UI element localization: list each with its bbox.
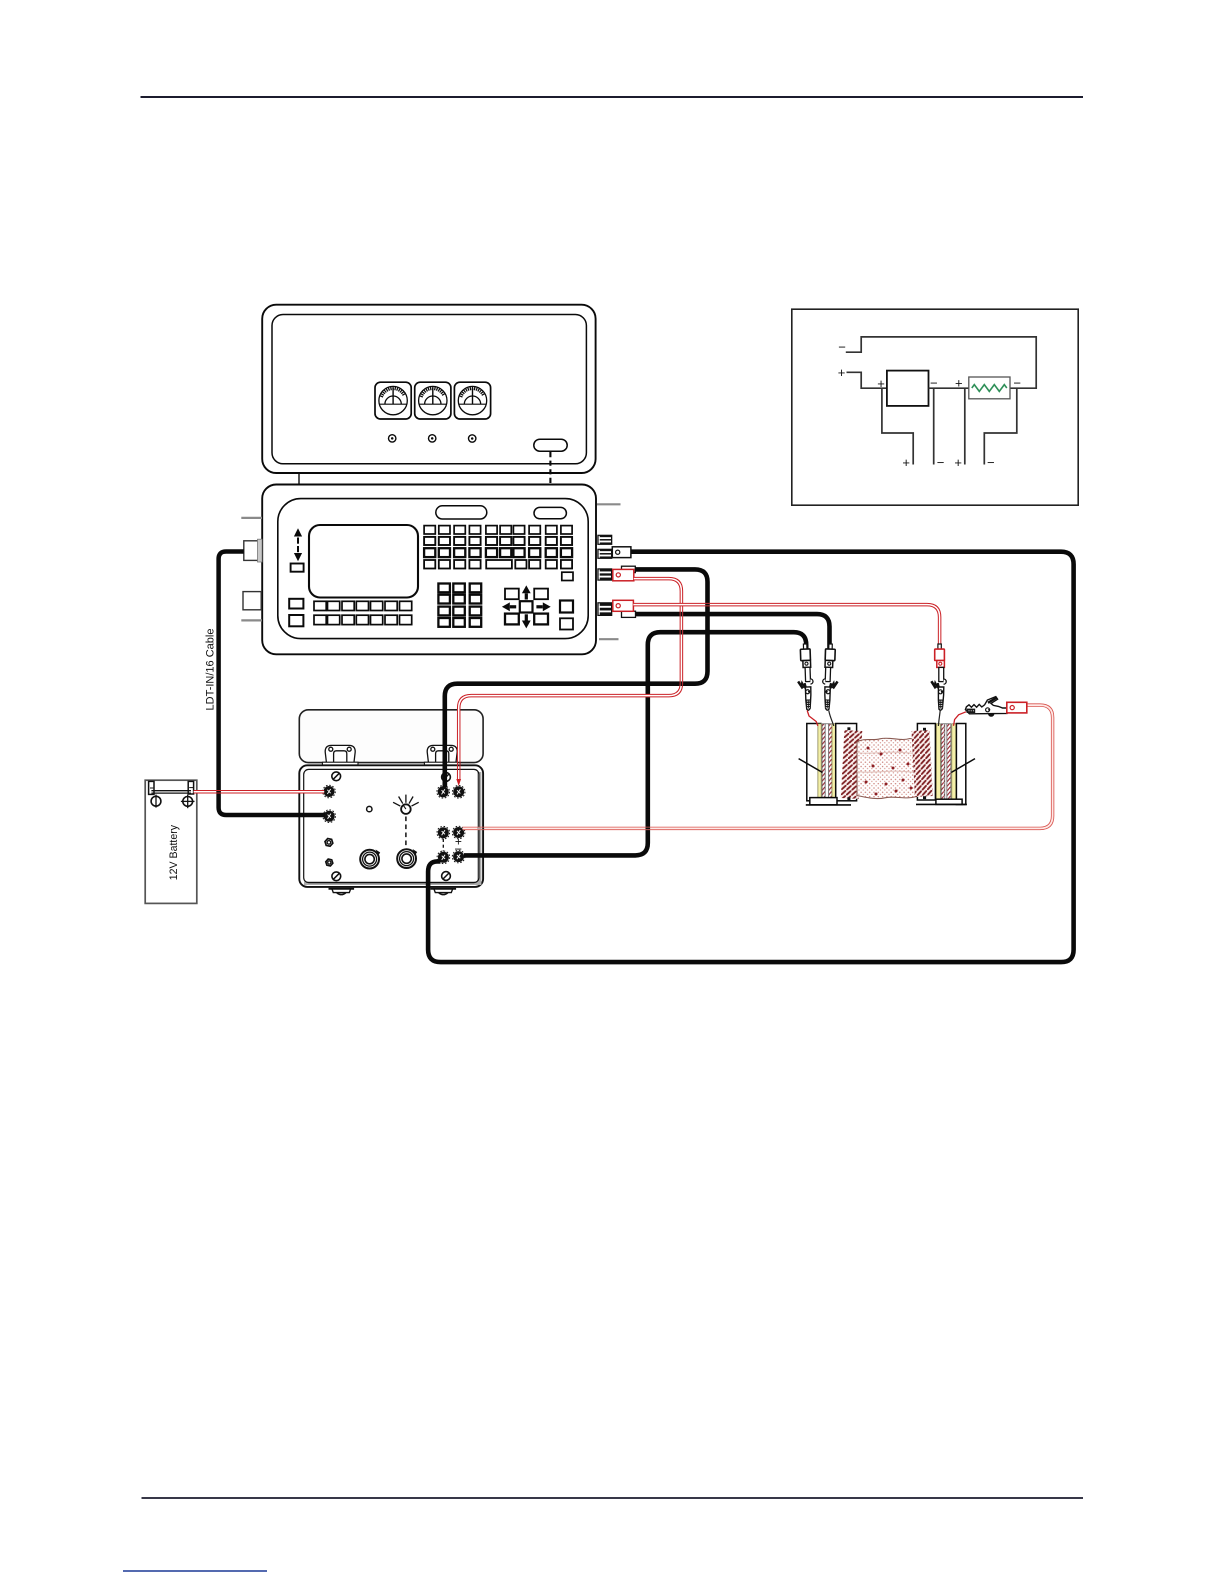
- wire crossing patches (black shows through red wire cores): [216, 604, 710, 830]
- output socket CH3: [597, 568, 612, 580]
- second left socket: [243, 592, 261, 610]
- meter instrument M1 outer case: [262, 305, 595, 473]
- wire: CH3 black to box V+ terminal: [445, 569, 708, 787]
- wire: box plus terminal to test clip 4: [463, 705, 1053, 828]
- svg-text:+: +: [902, 455, 910, 470]
- knob R2: [397, 849, 417, 868]
- test clip 2 (black): [822, 644, 839, 711]
- left backing plate: [836, 724, 857, 801]
- wire: CH3 red sense to box V+ right terminal: [459, 579, 682, 780]
- footer link underline: [123, 1570, 267, 1572]
- svg-text:−: −: [838, 340, 846, 355]
- clip 1 lead into left electrode: [807, 711, 818, 726]
- right electrode 2 (yellow): [952, 724, 956, 800]
- wire: CH2 black loop around to box GND terminal: [428, 552, 1074, 962]
- right leader line: [951, 759, 975, 773]
- right matting strip 1: [941, 724, 945, 800]
- contrast key: [291, 564, 304, 572]
- terminal OUT+L: [437, 826, 450, 839]
- meter panel jack J3: [469, 435, 476, 442]
- case joining stub: [298, 473, 300, 485]
- datalogger G1 outer case: [262, 485, 596, 655]
- function key row block: [314, 601, 412, 624]
- specimen corrosion spots: [865, 747, 913, 796]
- left stub line lower: [241, 619, 262, 621]
- right foot: [936, 799, 962, 804]
- output socket CH4: [597, 602, 612, 616]
- right backing plate: [917, 724, 935, 801]
- wire: CH4 red to test clip 3: [633, 605, 939, 647]
- svg-text:+: +: [955, 376, 963, 391]
- left soil plate (hatched): [841, 730, 863, 799]
- wire: battery positive to box battery terminal: [194, 790, 325, 794]
- output socket CH2: [597, 549, 612, 559]
- svg-text:+: +: [838, 365, 846, 380]
- svg-text:−: −: [937, 455, 945, 470]
- lamp symbol: [393, 795, 419, 814]
- inset drop wire 2 (-): [933, 388, 935, 464]
- svg-text:+: +: [954, 455, 962, 470]
- terminal V+ in red: [452, 786, 465, 799]
- left function keys: [289, 599, 303, 627]
- right stub line lower: [599, 638, 619, 640]
- terminal BAT+: [323, 785, 336, 798]
- battery negative post: [151, 795, 161, 808]
- dashed link meter to datalogger: [549, 452, 551, 507]
- left matting strip 1: [822, 724, 825, 800]
- right end plate: [956, 724, 965, 805]
- white plug on CH2: [612, 547, 631, 558]
- clip 3 lead into right electrode: [938, 711, 940, 727]
- output socket CH1: [597, 535, 612, 545]
- lid latch left: [322, 745, 358, 765]
- datalogger front panel: [278, 499, 588, 639]
- terminal V+ in black: [437, 786, 450, 799]
- interrupter box lid: [299, 710, 483, 763]
- analog meter M1-B: [415, 382, 451, 419]
- soil box cell assembly: [799, 724, 975, 805]
- svg-text:LDT-IN/16 Cable: LDT-IN/16 Cable: [205, 629, 217, 711]
- inset wire: negative to shunt right via top: [846, 337, 1036, 388]
- terminal OUT+R: [452, 826, 465, 839]
- specimen band lines: [857, 752, 916, 772]
- inset drop wire 1 (+): [882, 388, 913, 464]
- left foot: [810, 798, 837, 805]
- inset drop wire 3 (+): [964, 388, 966, 464]
- red plug on CH4: [613, 600, 634, 611]
- red plug of clip 4: [1007, 702, 1027, 713]
- left spacer: [825, 724, 829, 800]
- enter key below grid: [562, 572, 573, 580]
- red arrowhead at box terminal: [456, 779, 461, 786]
- right soil plate (hatched): [911, 730, 932, 797]
- panel screw top-right: [442, 773, 451, 782]
- inset shunt resistor element (green): [972, 385, 1007, 392]
- black lug on CH4: [622, 611, 636, 617]
- pipe specimen (stippled): [857, 738, 917, 798]
- LDT-IN/16 socket on datalogger: [244, 539, 262, 562]
- wire: CH4 black to test clip 2: [636, 614, 830, 648]
- datalogger display: [309, 525, 418, 598]
- battery positive post: [181, 795, 195, 809]
- inset wire: positive to interrupter left: [847, 372, 887, 388]
- left stub line upper: [241, 517, 262, 519]
- svg-text:+: +: [877, 376, 885, 391]
- svg-text:−: −: [987, 455, 995, 470]
- box foot right: [431, 889, 457, 895]
- lid latch right: [424, 745, 460, 765]
- box foot left: [329, 889, 355, 895]
- left leader line: [799, 759, 823, 773]
- battery bus bar: [149, 781, 194, 794]
- inset shunt resistor box: [969, 377, 1010, 399]
- test clip 1 (black): [797, 644, 814, 711]
- indicator hole: [367, 806, 372, 811]
- small terminal aux1: [325, 839, 333, 847]
- wire: LDT-IN/16 cable (datalogger to interrupter box): [219, 552, 325, 816]
- svg-text:12V Battery: 12V Battery: [168, 824, 180, 880]
- meter panel jack J1: [389, 435, 396, 442]
- inset wire: interrupter to shunt: [929, 387, 969, 389]
- wire: CH3 black drop into terminal (over screw): [442, 780, 447, 787]
- small terminal aux2: [326, 859, 333, 866]
- page footer rule: [142, 1497, 1084, 1499]
- left base line: [806, 804, 851, 806]
- page header rule: [141, 96, 1084, 98]
- left plate tab marks: [847, 727, 850, 730]
- left matting strip 2: [829, 724, 832, 800]
- right plate tab marks: [923, 728, 926, 731]
- dashed link lamp to knob: [405, 817, 407, 849]
- left end plate: [807, 724, 821, 801]
- wire: box minus terminal to test clip 1: [464, 632, 806, 855]
- terminal BAT-: [323, 810, 336, 823]
- inset drop wire 4 (-): [984, 388, 1017, 464]
- panel screw bottom-left: [332, 872, 341, 881]
- right stub line upper: [597, 503, 621, 505]
- panel screw bottom-right: [442, 872, 451, 881]
- meter power button: [534, 439, 567, 451]
- left electrode 2 (yellow): [832, 724, 836, 800]
- meter panel jack J2: [429, 435, 436, 442]
- right side keys: [560, 601, 573, 613]
- analog meter M1-C: [454, 382, 490, 419]
- numeric keypad: [438, 584, 481, 627]
- clip 2 lead into left electrode 2: [829, 711, 834, 727]
- interrupter box front panel: [299, 765, 483, 887]
- cursor arrow pad: [505, 589, 548, 625]
- analog meter M1-A: [375, 382, 411, 419]
- inset interrupter box: [887, 371, 929, 406]
- right electrode (yellow): [936, 724, 940, 800]
- right matting strip 2: [947, 724, 951, 800]
- right base line: [916, 803, 967, 805]
- terminal OUT-L: [437, 851, 450, 864]
- inset schematic frame: [792, 309, 1078, 505]
- battery BT1 body: [145, 780, 197, 903]
- meter instrument M1 front panel: [272, 315, 586, 464]
- terminal OUT-R: [452, 850, 465, 863]
- alphanumeric key grid: [424, 526, 572, 569]
- clip 4 lead into right stack: [954, 712, 967, 726]
- contrast up/down arrow: [294, 528, 302, 561]
- dashed link between left output terminals: [442, 839, 444, 851]
- test clip 3 (red): [931, 644, 946, 710]
- knob R1: [360, 850, 380, 869]
- panel screw top-left: [332, 772, 341, 781]
- datalogger power slot: [534, 507, 566, 518]
- datalogger speaker slot: [436, 506, 487, 519]
- black lug on CH3: [622, 566, 636, 572]
- red plug on CH3: [613, 569, 634, 580]
- test clip 4 (horizontal, to soil box): [965, 697, 1007, 717]
- right spacer: [945, 724, 947, 800]
- left electrode (yellow): [818, 724, 821, 800]
